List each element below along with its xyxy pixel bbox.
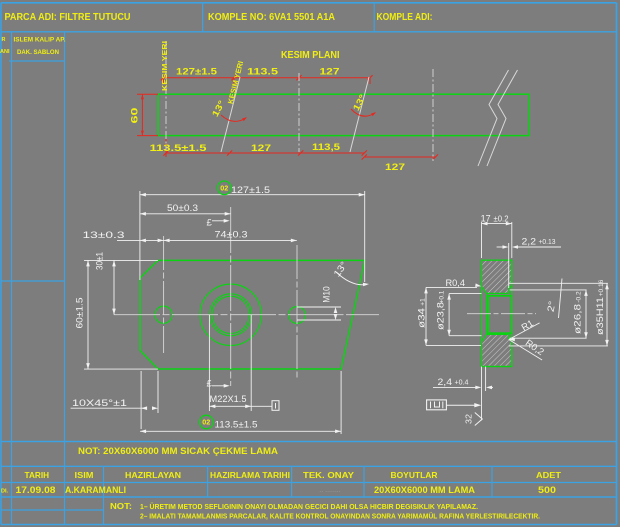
section outer green border xyxy=(482,260,512,366)
section ø26,8 dimension xyxy=(509,282,608,284)
plan 127±1.5 dimension xyxy=(140,194,365,196)
svg-text:2,4: 2,4 xyxy=(438,377,453,388)
strip top dim extension stubs xyxy=(233,78,235,84)
svg-text:+0.13: +0.13 xyxy=(539,239,556,246)
strip cut line 1 (13 deg) xyxy=(221,77,240,152)
plan 113.5±1.5 dimension line xyxy=(140,430,341,432)
section 2,4+0.4 dimension xyxy=(481,367,483,421)
table horizontal lines xyxy=(1,441,617,443)
plan vertical centerline big circle xyxy=(230,207,232,386)
strip centerline 1 xyxy=(165,41,167,150)
svg-text:KESIM PLANI: KESIM PLANI xyxy=(281,50,340,61)
svg-text:127: 127 xyxy=(385,162,405,173)
svg-text:±0.2: ±0.2 xyxy=(494,215,510,224)
section ø23,8 dimension xyxy=(448,294,450,336)
svg-text:32: 32 xyxy=(464,414,474,424)
svg-text:£: £ xyxy=(207,379,213,390)
plan small circle right xyxy=(289,307,306,324)
svg-text:17.09.08: 17.09.08 xyxy=(16,485,56,496)
svg-text:10X45°±1: 10X45°±1 xyxy=(72,398,127,409)
strip 60 dimension red xyxy=(141,94,143,135)
svg-text:127±1.5: 127±1.5 xyxy=(176,67,218,78)
strip centerline 3 xyxy=(432,69,434,161)
svg-text:KOMPLE ADI:: KOMPLE ADI: xyxy=(377,11,433,23)
svg-text:HAZIRLAMA TARIHI: HAZIRLAMA TARIHI xyxy=(210,471,290,480)
svg-text:ISLEM KALIP AP.: ISLEM KALIP AP. xyxy=(14,37,66,44)
13 deg arc 1 red xyxy=(221,115,246,121)
balloon 02 bottom xyxy=(200,415,214,429)
plan M22X1.5 dimension xyxy=(208,315,210,411)
svg-text:2,2: 2,2 xyxy=(522,237,537,248)
plan big circle (counterbore ø35) xyxy=(200,284,261,345)
svg-text:ø34: ø34 xyxy=(417,308,428,328)
strip centerline 2 xyxy=(298,73,300,152)
svg-text:60: 60 xyxy=(130,108,141,124)
svg-text:BOYUTLAR: BOYUTLAR xyxy=(391,470,438,480)
svg-text:02: 02 xyxy=(202,418,210,427)
svg-text:127: 127 xyxy=(251,143,271,154)
svg-text:ø26,8: ø26,8 xyxy=(573,304,584,334)
svg-text:13±0.3: 13±0.3 xyxy=(83,230,125,241)
svg-text:ADET: ADET xyxy=(536,470,562,480)
svg-text:127±1.5: 127±1.5 xyxy=(231,185,270,196)
section centerline xyxy=(467,313,536,315)
svg-text:M22X1.5: M22X1.5 xyxy=(210,394,247,405)
svg-text:60±1.5: 60±1.5 xyxy=(75,298,86,329)
strip top dimension line red xyxy=(164,77,371,79)
svg-text:TEK. ONAY: TEK. ONAY xyxy=(303,470,354,480)
section ø34 dimension xyxy=(425,287,427,345)
svg-text:.. ........: .. ........ xyxy=(319,487,340,494)
break symbol line 2 xyxy=(487,70,518,166)
counterbore symbol box xyxy=(272,401,279,411)
section 17±0.2 dimension xyxy=(482,223,512,225)
plan 30±1 dimension xyxy=(113,260,115,314)
plan vertical centerline left circle xyxy=(163,236,165,353)
plan horizontal centerline xyxy=(114,314,379,316)
svg-text:ISIM: ISIM xyxy=(75,470,94,480)
plan 60±1.5 dimension xyxy=(87,260,89,369)
svg-text:+1: +1 xyxy=(420,298,427,306)
svg-text:2– IMALATI TAMAMLANMIS PARCALA: 2– IMALATI TAMAMLANMIS PARCALAR, KALITE … xyxy=(140,511,540,520)
title bar divider 2 xyxy=(373,3,375,32)
svg-text:500: 500 xyxy=(538,485,556,496)
svg-text:113,5: 113,5 xyxy=(312,142,341,153)
table vertical lines xyxy=(103,466,105,524)
balloon 02 top xyxy=(218,181,232,195)
svg-text:NOT:: NOT: xyxy=(110,502,132,511)
strip bottom red stub xyxy=(165,136,167,157)
svg-text:50±0.3: 50±0.3 xyxy=(167,203,198,214)
svg-text:TARIH: TARIH xyxy=(25,470,50,480)
svg-text:ANI: ANI xyxy=(0,49,10,55)
svg-text:30±1: 30±1 xyxy=(95,252,106,270)
svg-text:17: 17 xyxy=(481,214,491,225)
svg-text:ø23,8: ø23,8 xyxy=(436,302,447,330)
section inner green line xyxy=(486,293,488,334)
strip bottom dimension 4 line red xyxy=(364,156,435,158)
section 2,2+0.13 dimension xyxy=(508,243,510,288)
section 2 deg marker xyxy=(559,279,563,319)
machining symbol box xyxy=(427,400,447,410)
strip outline xyxy=(158,94,529,135)
plan 74±0.3 and 13±0.3 dimension line xyxy=(117,239,297,241)
section hatch bottom block xyxy=(482,334,512,366)
svg-text:113.5±1.5: 113.5±1.5 xyxy=(215,419,258,430)
left column lines xyxy=(11,32,13,525)
plan small circle left xyxy=(155,306,172,323)
break symbol line 1 xyxy=(478,70,509,166)
svg-text:127: 127 xyxy=(320,67,340,78)
surface roughness 32 symbol xyxy=(475,413,483,426)
section ø35H11 dimension xyxy=(606,283,608,346)
svg-text:HAZIRLAYAN: HAZIRLAYAN xyxy=(125,470,181,480)
svg-text:£: £ xyxy=(207,218,213,229)
section R1 R0,2 leaders xyxy=(509,338,515,342)
svg-text:02: 02 xyxy=(220,183,228,192)
svg-text:+0.1: +0.1 xyxy=(439,290,446,303)
svg-text:A.KARAMANLI: A.KARAMANLI xyxy=(65,485,126,496)
svg-text:DAK. SABLON: DAK. SABLON xyxy=(17,49,59,56)
svg-text:KOMPLE NO: 6VA1 5501 A1A: KOMPLE NO: 6VA1 5501 A1A xyxy=(208,11,335,23)
svg-text:2°: 2° xyxy=(546,300,559,313)
strip cut line 2 (13 deg) xyxy=(350,77,369,152)
svg-text:DI.: DI. xyxy=(1,488,9,494)
plan thread circles M22 xyxy=(210,294,252,336)
section hatch top block xyxy=(482,260,512,293)
plan outline green xyxy=(140,260,365,369)
13 deg arc 2 red xyxy=(351,109,375,116)
plan extension lines left xyxy=(84,259,158,261)
section thread window green box xyxy=(488,296,511,333)
title bar frame xyxy=(1,2,617,4)
svg-text:+0.16: +0.16 xyxy=(598,279,605,296)
plan 50±0.3 dimension xyxy=(140,213,231,215)
strip bottom dimension line red xyxy=(166,152,364,154)
svg-text:+0.4: +0.4 xyxy=(455,380,469,387)
svg-text:1– ÜRETIM METOD SEFLIGININ ONA: 1– ÜRETIM METOD SEFLIGININ ONAYI OLMADAN… xyxy=(140,502,478,511)
svg-text:113.5: 113.5 xyxy=(247,67,279,78)
svg-text:M10: M10 xyxy=(322,286,333,302)
svg-text:-0.2: -0.2 xyxy=(576,291,583,303)
svg-text:ø35H11: ø35H11 xyxy=(595,297,606,335)
svg-text:113.5±1.5: 113.5±1.5 xyxy=(150,143,208,154)
svg-text:PARCA ADI: FILTRE TUTUCU: PARCA ADI: FILTRE TUTUCU xyxy=(5,11,131,23)
title bar divider 1 xyxy=(202,3,204,32)
svg-text:R: R xyxy=(2,37,6,43)
svg-text:NOT: 20X60X6000 MM SICAK ÇEKME: NOT: 20X60X6000 MM SICAK ÇEKME LAMA xyxy=(78,446,278,457)
plan vertical centerline right circle xyxy=(296,245,298,380)
svg-text:KESIM YERI: KESIM YERI xyxy=(160,41,169,91)
svg-text:20X60X6000 MM LAMA: 20X60X6000 MM LAMA xyxy=(374,485,475,496)
machining symbol leader xyxy=(446,404,476,406)
svg-text:74±0.3: 74±0.3 xyxy=(215,230,248,241)
